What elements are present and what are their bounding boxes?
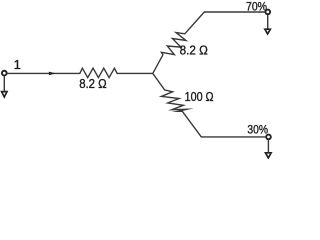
svg-text:70%: 70% (246, 0, 267, 14)
svg-text:8.2 Ω: 8.2 Ω (79, 77, 107, 91)
svg-text:1: 1 (14, 57, 21, 72)
svg-text:30%: 30% (247, 122, 268, 136)
svg-text:100 Ω: 100 Ω (185, 90, 214, 104)
svg-text:8.2 Ω: 8.2 Ω (180, 43, 208, 57)
